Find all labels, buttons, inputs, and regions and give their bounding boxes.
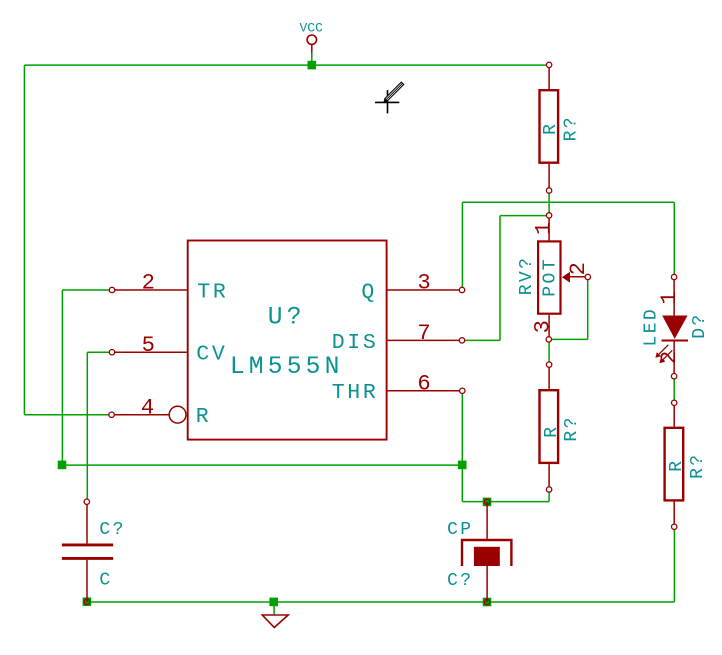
wire pin4 horizontal — [24, 414, 111, 416]
D? pin1 stub — [673, 277, 675, 316]
CP bottom tip — [484, 599, 489, 604]
R1 top tip — [546, 62, 551, 67]
R1 bottom pin — [548, 164, 550, 191]
pencil tip — [383, 98, 387, 102]
D? triangle — [662, 316, 687, 339]
editor cursor crosshair with pencil — [375, 82, 404, 113]
junction CP bottom — [483, 598, 492, 607]
CP top pin — [486, 502, 488, 540]
D? emit arrow 2 — [662, 350, 672, 360]
wire pin5 vertical down to C — [86, 352, 88, 502]
wire pin7 horizontal — [462, 339, 500, 341]
CP outline bracket — [462, 540, 511, 566]
D? pin2 stub — [673, 341, 675, 377]
junction pin6 net — [458, 461, 467, 470]
CP bottom pin — [486, 566, 488, 602]
svg-text:DIS: DIS — [332, 331, 379, 355]
R2 body — [540, 390, 559, 463]
svg-text:2: 2 — [566, 262, 591, 275]
R1 bottom tip — [546, 188, 551, 193]
R3 bottom tip — [672, 524, 677, 529]
svg-text:1: 1 — [532, 222, 557, 235]
electrolytic capacitor CP — [447, 499, 511, 605]
wire R1 to POT vertical — [548, 191, 550, 216]
wire LED to R3 — [673, 376, 675, 403]
wire R3 bottom vertical — [673, 527, 675, 602]
R1 top pin — [548, 65, 550, 89]
junction pin2 net left — [58, 461, 67, 470]
svg-text:R: R — [541, 122, 561, 135]
D? emit arrow 1 — [658, 345, 668, 355]
C top pin — [86, 502, 88, 544]
pin 7 DIS wire stub — [388, 339, 463, 341]
R2 bottom pin — [548, 464, 550, 489]
wire horizontal to R2 bottom — [462, 501, 549, 503]
wire wiper vertical — [587, 277, 589, 339]
R2 bottom tip — [546, 487, 551, 492]
junction VCC rail — [308, 61, 317, 70]
pencil body — [385, 82, 404, 101]
R2 top pin — [548, 365, 550, 389]
wire bottom ground rail — [87, 601, 675, 603]
svg-text:4: 4 — [141, 395, 154, 420]
RV? pin3 tip — [546, 337, 551, 342]
R3 top pin — [673, 403, 675, 427]
crosshair — [375, 90, 399, 113]
RV? pin3 stub — [548, 315, 550, 340]
svg-text:LM555N: LM555N — [230, 354, 344, 381]
junction C bottom — [83, 597, 92, 606]
wire LED branch vertical — [673, 202, 675, 277]
R1 body — [540, 90, 559, 163]
R3 top tip — [672, 400, 677, 405]
wire output horizontal to LED — [462, 201, 674, 203]
C top plate — [62, 543, 113, 546]
wire pin5 horizontal — [87, 351, 112, 353]
VCC pin stem — [311, 44, 313, 52]
wire pin3 vertical up — [461, 202, 463, 290]
resistor R1 (top) — [540, 62, 582, 193]
svg-text:C?: C? — [447, 571, 473, 591]
ground stem — [273, 602, 275, 615]
svg-text:U?: U? — [268, 305, 306, 332]
C top tip — [84, 499, 89, 504]
svg-text:CV: CV — [196, 343, 227, 367]
wire pin6 vertical down — [461, 391, 463, 465]
svg-text:VCC: VCC — [299, 21, 323, 36]
svg-text:R: R — [667, 458, 687, 471]
RV? body — [538, 241, 560, 313]
capacitor C? (CV decoupling) — [62, 499, 126, 604]
D? cathode bar — [662, 340, 689, 342]
resistor R3 (LED resistor) — [665, 400, 708, 529]
wire pin2 vertical down — [61, 290, 63, 465]
pencil hatch — [386, 83, 403, 100]
wire DIS vertical up — [499, 216, 501, 341]
svg-text:C?: C? — [99, 520, 125, 540]
wire pin2 horizontal — [62, 289, 112, 291]
RV? pin1 tip — [546, 213, 551, 218]
pin 4 inversion bubble — [169, 406, 186, 423]
svg-text:1: 1 — [657, 291, 682, 304]
pin 4 R wire stub — [112, 414, 170, 416]
svg-text:R: R — [196, 405, 212, 429]
resistor R2 (middle) — [540, 362, 582, 492]
svg-text:3: 3 — [531, 320, 556, 333]
ground triangle — [262, 615, 288, 628]
C bottom plate — [62, 557, 113, 560]
wire wiper horizontal to pin3 — [549, 338, 588, 340]
svg-text:POT: POT — [541, 257, 561, 297]
wire middle horizontal TRIG-THR net — [62, 464, 462, 466]
svg-text:C: C — [99, 571, 112, 591]
wire VCC stem — [311, 53, 313, 66]
pin 7 tip — [459, 338, 464, 343]
CP top tip — [484, 499, 489, 504]
R3 body — [665, 428, 684, 501]
svg-text:7: 7 — [417, 321, 430, 346]
svg-text:2: 2 — [657, 351, 682, 364]
svg-text:R?: R? — [562, 415, 582, 441]
wire junction down to CP net — [461, 465, 463, 502]
CP filled plate — [474, 547, 500, 566]
RV? pin2 wiper stub — [570, 276, 588, 278]
RV? pin1 stub — [548, 215, 550, 241]
svg-text:Q: Q — [361, 280, 377, 304]
svg-text:RV?: RV? — [517, 256, 537, 296]
LED D? — [642, 274, 711, 379]
pin 2 TR wire stub — [112, 289, 187, 291]
pin 5 tip — [109, 350, 114, 355]
wire left vertical to pin 4 — [23, 65, 25, 415]
pin 4 tip — [109, 412, 114, 417]
RV? wiper arrow — [562, 272, 570, 283]
svg-text:TR: TR — [197, 280, 228, 304]
wire horizontal to POT pin1 — [500, 215, 549, 217]
svg-text:6: 6 — [417, 371, 430, 396]
pin 6 tip — [460, 388, 465, 393]
power flag VCC — [299, 21, 323, 53]
svg-text:2: 2 — [142, 271, 155, 296]
RV? pin2 tip — [585, 274, 590, 279]
svg-text:THR: THR — [332, 381, 379, 405]
D? pin2 tip — [671, 374, 676, 379]
svg-text:3: 3 — [417, 271, 430, 296]
pin 3 tip — [459, 287, 464, 292]
wire R2 bottom stub — [548, 490, 550, 502]
pin 3 Q wire stub — [388, 289, 463, 291]
svg-text:LED: LED — [642, 307, 662, 347]
pin 6 THR wire stub — [388, 390, 463, 392]
R2 top tip — [546, 362, 551, 367]
IC U? LM555N — [109, 241, 465, 440]
svg-text:R?: R? — [562, 115, 582, 141]
svg-text:CP: CP — [447, 520, 473, 540]
svg-text:R: R — [542, 425, 562, 438]
U? body rectangle — [188, 241, 387, 440]
junction ground — [269, 598, 278, 607]
pin 5 CV wire stub — [112, 351, 187, 353]
wire POT pin3 to R2 top — [548, 339, 550, 364]
svg-text:R?: R? — [688, 452, 708, 478]
C bottom pin — [86, 560, 88, 602]
C bottom tip — [84, 599, 89, 604]
D? pin1 tip — [671, 274, 676, 279]
junction CP top — [483, 498, 492, 507]
svg-text:D?: D? — [690, 312, 710, 338]
potentiometer RV? POT — [517, 213, 591, 342]
wire top horizontal VCC rail — [24, 64, 549, 66]
svg-text:5: 5 — [142, 333, 155, 358]
VCC circle — [307, 35, 316, 44]
pin 2 tip — [109, 287, 114, 292]
ground symbol — [262, 602, 288, 628]
R3 bottom pin — [673, 501, 675, 527]
